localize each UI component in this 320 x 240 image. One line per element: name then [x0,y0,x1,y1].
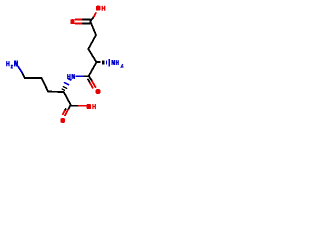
bond C9-N3 (blue half near N) [18,67,25,79]
hashed wedge bond C4-N1 (stereo, to NH2) [97,59,111,66]
bond C7-C8 [42,78,48,91]
bond C10-O5H (black then red, horizontal) [71,105,86,107]
bond C1-C2 chain [90,21,96,35]
atom O3 label (amide oxygen, red O) [96,89,101,94]
atom O2 hydroxyl label OH (red, top) [96,6,105,11]
double bond C10=O4 (bottom carboxyl) [63,106,70,116]
bond C5-N2 (amide C-N, black then blue) [76,75,88,77]
atom N2 label HN (blue amide NH) [68,74,76,79]
atom O5 hydroxyl label OH (red, bottom) [87,104,96,109]
double bond O1=C1 (red half near O, black half near C) [76,20,91,24]
bond C8-C9 (horizontal) [25,77,42,79]
bond C3-C4 chain [88,49,96,62]
hashed wedge bond C6-N2 (stereo, ornithine alpha C to amide N) [62,79,71,90]
atom N1 label NH2 (blue) [112,60,124,67]
atom O4 label (bottom carbonyl oxygen, red O) [60,118,65,123]
atom N3 label H2N (blue terminal amine) [7,61,18,68]
bond C6-C10 (alpha C to carboxyl C) [64,92,71,105]
bond C6-C7 (alpha C to chain, horizontal) [48,91,64,94]
bond C2-C3 chain [88,35,96,49]
bond C1-O2H (to hydroxyl, black then red) [90,13,96,21]
atom O1 label (top carbonyl oxygen, red O) [70,19,74,24]
bond C4-C5 (to amide carbonyl) [89,62,97,76]
double bond C5=O3 (amide carbonyl) [88,76,96,88]
